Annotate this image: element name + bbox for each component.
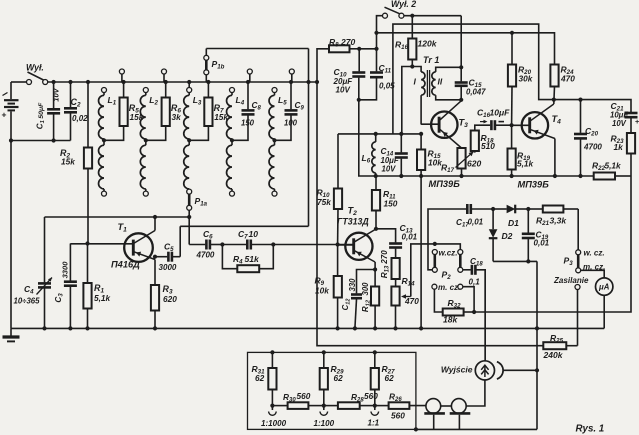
junction xyxy=(187,138,191,142)
resistor R31 xyxy=(268,352,276,405)
switch contact (band selector stub) xyxy=(119,69,124,82)
label R12 xyxy=(361,282,371,312)
transistor T3 xyxy=(421,101,461,148)
resistor R13 xyxy=(392,258,400,287)
svg-text:0,01: 0,01 xyxy=(534,239,550,248)
capacitor C20 xyxy=(574,100,587,176)
capacitor C5 xyxy=(155,252,180,262)
label R15 xyxy=(428,149,443,168)
svg-text:C1 50μF: C1 50μF xyxy=(36,102,46,129)
wire jacks xyxy=(441,380,485,406)
transistor T1 xyxy=(70,231,155,262)
wire T1 collector xyxy=(154,217,156,231)
label R11 xyxy=(383,189,398,209)
svg-text:4700: 4700 xyxy=(196,251,215,260)
transformer Tr1 core xyxy=(427,70,429,97)
capacitor C1 xyxy=(47,82,60,143)
svg-text:0,01: 0,01 xyxy=(402,233,418,242)
svg-text:+: + xyxy=(635,117,639,126)
wire T3 base line xyxy=(338,133,421,135)
output connector Wyjscie xyxy=(475,361,503,380)
label C14 xyxy=(381,146,399,174)
wire P3 to meter xyxy=(581,270,605,278)
junction xyxy=(270,404,377,408)
svg-text:100: 100 xyxy=(284,119,298,128)
label L2 xyxy=(149,95,158,107)
resistor R1 xyxy=(83,244,91,329)
label R25 xyxy=(543,333,564,360)
svg-text:10k: 10k xyxy=(315,286,329,296)
junction xyxy=(374,227,378,231)
resistor R3 xyxy=(151,285,159,328)
resistor R7 xyxy=(189,82,212,140)
label L4 xyxy=(236,95,245,107)
label C4 xyxy=(14,284,41,306)
wire T4 emitter xyxy=(554,139,556,177)
svg-text:1:100: 1:100 xyxy=(314,419,335,428)
junction xyxy=(102,138,106,142)
svg-text:51k: 51k xyxy=(245,254,260,264)
label Tr1 xyxy=(423,55,439,65)
svg-text:150: 150 xyxy=(384,199,398,209)
resistor R29 xyxy=(320,352,328,405)
label P3 wcz xyxy=(584,249,605,258)
wire C1/C2 bottom return xyxy=(11,140,71,142)
svg-text:510: 510 xyxy=(481,141,495,151)
label R14 xyxy=(402,276,420,306)
svg-text:П416Д: П416Д xyxy=(111,260,140,270)
wire top supply bus xyxy=(48,81,318,83)
junction xyxy=(357,98,361,102)
label R6 xyxy=(171,103,181,122)
junction xyxy=(153,255,157,259)
label T1 type xyxy=(111,260,140,270)
junction xyxy=(272,138,276,142)
svg-text:15k: 15k xyxy=(61,157,75,167)
capacitor C7 xyxy=(222,240,273,250)
label R9 xyxy=(315,276,330,296)
svg-text:560: 560 xyxy=(364,391,378,401)
svg-text:3300: 3300 xyxy=(61,261,70,279)
resistor R8 xyxy=(329,45,359,52)
label R23 xyxy=(611,134,625,153)
switch Wyl.2 xyxy=(383,7,404,18)
resistor R16 xyxy=(408,16,416,67)
label C16 xyxy=(477,108,510,120)
wire R16 node to C14 column xyxy=(402,67,413,134)
switch contact (band selector stub) xyxy=(162,69,167,82)
wire P1b line down to bus xyxy=(308,49,310,83)
svg-text:Zasilanie: Zasilanie xyxy=(553,276,589,285)
label R22 xyxy=(592,161,621,173)
diode D2 xyxy=(489,209,498,261)
label C13 xyxy=(400,223,418,242)
resistor R30 xyxy=(272,402,323,409)
junction xyxy=(526,207,530,211)
tap terminal 1:100 xyxy=(320,406,328,416)
junction xyxy=(336,242,340,246)
label C3 xyxy=(54,261,70,303)
junction xyxy=(336,326,424,330)
junction xyxy=(42,326,157,330)
svg-text:+: + xyxy=(2,110,7,120)
label R28 xyxy=(351,391,378,403)
capacitor C9 xyxy=(275,82,298,140)
label T2 type xyxy=(337,217,369,227)
wire L3 top to bus xyxy=(188,82,190,88)
junction xyxy=(410,64,414,68)
label R20 xyxy=(518,65,533,84)
svg-text:МП39Б: МП39Б xyxy=(429,179,461,189)
label D2 xyxy=(502,231,513,241)
label L1 xyxy=(108,95,117,107)
junction xyxy=(230,138,234,142)
wire R14 wiper to P2 xyxy=(411,244,461,297)
wire base line to T2 xyxy=(273,244,353,246)
wire right column xyxy=(474,176,631,312)
inductor L6 xyxy=(372,134,376,176)
label R26 xyxy=(389,392,405,421)
resistor R2 xyxy=(84,82,92,244)
label R32 xyxy=(443,298,461,325)
svg-text:w. cz.: w. cz. xyxy=(584,249,605,258)
svg-text:w.cz.: w.cz. xyxy=(439,249,458,258)
junction xyxy=(526,259,530,263)
inductor L1 xyxy=(99,88,107,197)
label 1:100 xyxy=(314,419,335,428)
label winding I xyxy=(414,77,417,87)
label R3 xyxy=(163,284,178,304)
label R31 xyxy=(252,364,266,383)
svg-text:62: 62 xyxy=(385,373,395,383)
resistor R11 xyxy=(372,176,380,229)
tap terminal 1:1 xyxy=(371,406,379,416)
label R5 xyxy=(129,103,144,122)
label Wyl.2 xyxy=(391,0,416,9)
switch P2 mcz contacts xyxy=(432,284,463,289)
junction xyxy=(510,123,514,127)
wire supply to output node xyxy=(317,82,543,346)
label C8 xyxy=(241,100,262,128)
label Wyjscie xyxy=(441,365,473,375)
resistor R21 xyxy=(528,206,578,213)
capacitor C3 xyxy=(64,244,77,329)
svg-text:1:1: 1:1 xyxy=(368,419,380,428)
label P1b xyxy=(212,59,225,71)
diode D1 xyxy=(493,205,528,214)
wire R8 feed from bus xyxy=(317,49,329,82)
wire T2 emitter xyxy=(374,262,376,270)
transistor T2 xyxy=(338,229,376,262)
svg-text:1:1000: 1:1000 xyxy=(261,419,287,428)
svg-text:4700: 4700 xyxy=(583,143,602,152)
label R8 xyxy=(329,37,355,49)
svg-text:Wyjście: Wyjście xyxy=(441,365,473,375)
resistor R9 xyxy=(334,245,342,329)
label C12 xyxy=(341,278,357,311)
switch P1a xyxy=(187,189,192,217)
resistor R10 xyxy=(334,134,342,245)
variable capacitor C4 xyxy=(37,217,53,328)
wire wcz detector feed xyxy=(428,209,466,270)
label R19 xyxy=(517,151,534,169)
svg-text:μA: μA xyxy=(598,283,610,292)
svg-text:1k: 1k xyxy=(614,142,624,152)
wire switch left to C10 column xyxy=(377,16,383,72)
label R17 xyxy=(441,159,481,175)
junction xyxy=(357,47,379,51)
switch P3 xyxy=(575,250,581,290)
resistor R27 xyxy=(371,352,379,405)
wire meter to ground rail xyxy=(603,295,605,328)
wire Wyjscie shield to ground xyxy=(504,369,538,371)
resistor R15 xyxy=(417,134,425,329)
svg-text:0,02: 0,02 xyxy=(72,114,88,123)
resistor R17 (adjustable) xyxy=(456,148,474,176)
inductor L2 xyxy=(140,88,148,197)
junction xyxy=(491,207,495,211)
label P3 mcz xyxy=(583,263,605,272)
wire battery negative to ground rail xyxy=(10,141,12,329)
tap terminal 1:1000 xyxy=(269,406,277,416)
wire P1b feed line xyxy=(206,48,308,50)
capacitor C6 xyxy=(189,240,222,250)
label T4 type xyxy=(518,180,550,190)
svg-text:5,1k: 5,1k xyxy=(94,293,111,303)
wire tank to C6 xyxy=(188,217,190,245)
wire C10 bottom to common rail xyxy=(359,100,376,176)
svg-text:3,3k: 3,3k xyxy=(550,216,568,226)
switch Wyl.1 xyxy=(27,72,48,85)
svg-text:10μF: 10μF xyxy=(490,108,511,118)
label L3 xyxy=(193,95,202,107)
junction xyxy=(220,242,224,246)
label 1:1000 xyxy=(261,419,287,428)
junction xyxy=(374,132,424,136)
wire Zasilanie to R25 xyxy=(577,289,579,345)
label C7 xyxy=(238,229,258,241)
svg-text:МП39Б: МП39Б xyxy=(518,180,550,190)
svg-text:m. cz.: m. cz. xyxy=(438,283,460,292)
junction xyxy=(52,80,320,84)
svg-text:330: 330 xyxy=(348,278,357,292)
junction xyxy=(510,31,514,35)
meter uA xyxy=(596,278,613,295)
attenuator box xyxy=(248,352,416,429)
label C5 xyxy=(159,242,177,273)
wire R8 to C10/C11 node xyxy=(359,48,376,50)
wire collector node to C13 xyxy=(376,229,396,243)
jack J1 xyxy=(424,399,445,430)
svg-text:10V: 10V xyxy=(336,86,351,95)
wire ground rail xyxy=(11,327,604,329)
svg-text:0,047: 0,047 xyxy=(466,88,486,97)
svg-text:240k: 240k xyxy=(543,350,564,360)
resistor R4 xyxy=(222,245,273,273)
resistor R6 xyxy=(146,82,170,140)
resistor R32 xyxy=(443,309,474,316)
wire feedback bus xyxy=(393,24,631,134)
svg-text:0,01: 0,01 xyxy=(468,218,484,227)
svg-text:Rys. 1: Rys. 1 xyxy=(576,424,605,435)
junction xyxy=(374,31,378,35)
svg-text:560: 560 xyxy=(391,411,405,421)
svg-text:10V: 10V xyxy=(612,119,627,128)
label T4 xyxy=(552,114,562,126)
svg-text:10V: 10V xyxy=(52,87,61,101)
svg-text:D1: D1 xyxy=(508,218,519,228)
wire battery to switch xyxy=(11,81,27,83)
label P1a xyxy=(195,196,208,208)
label R4 xyxy=(233,254,260,266)
label R16 xyxy=(395,39,438,52)
transformer Tr1 primary xyxy=(412,67,425,125)
svg-text:5,1k: 5,1k xyxy=(605,161,622,171)
wire mcz right contact xyxy=(463,287,475,312)
label mcz P2 xyxy=(438,283,460,292)
label C6 xyxy=(196,229,215,260)
wire attenuator ground line xyxy=(416,428,537,430)
svg-text:470: 470 xyxy=(560,74,575,84)
junction xyxy=(374,174,583,178)
svg-text:270: 270 xyxy=(340,37,355,47)
capacitor C11 xyxy=(359,73,383,100)
label R29 xyxy=(331,364,345,383)
junction xyxy=(9,138,13,142)
label T2 xyxy=(348,206,358,218)
switch P2 wcz contacts xyxy=(432,244,463,272)
label Zasilanie xyxy=(553,276,589,285)
junction xyxy=(552,98,583,102)
label R2 xyxy=(60,148,75,167)
resistor R24 xyxy=(550,65,558,105)
label C10 xyxy=(333,67,354,95)
svg-text:3k: 3k xyxy=(172,112,182,122)
junction xyxy=(472,310,476,314)
svg-text:15k: 15k xyxy=(130,112,144,122)
wire T1 emitter xyxy=(154,260,156,286)
svg-text:5,1k: 5,1k xyxy=(517,159,534,169)
junction xyxy=(433,242,437,246)
resistor R12 xyxy=(371,270,379,329)
label P2 xyxy=(442,270,452,282)
svg-text:10÷365: 10÷365 xyxy=(14,297,41,306)
switch P1b xyxy=(204,49,209,83)
capacitor C13 xyxy=(389,244,402,259)
label C18 xyxy=(469,256,484,287)
label C17 xyxy=(456,217,484,228)
svg-text:10: 10 xyxy=(249,229,259,239)
wire common rail xyxy=(376,175,594,177)
label C15 xyxy=(466,78,486,97)
svg-text:D2: D2 xyxy=(502,231,513,241)
resistor R22 xyxy=(594,173,631,180)
label winding II xyxy=(438,77,443,87)
junction xyxy=(373,267,377,271)
capacitor C12 xyxy=(351,270,375,329)
svg-text:620: 620 xyxy=(163,294,177,304)
ground symbol xyxy=(3,328,20,341)
label Rys1 xyxy=(576,424,605,435)
capacitor C19 xyxy=(522,209,535,261)
label R18 xyxy=(481,133,496,151)
transformer Tr1 secondary xyxy=(432,67,461,100)
jack J2 xyxy=(450,399,471,430)
wire bus A down to C15 xyxy=(460,16,462,68)
svg-text:3000: 3000 xyxy=(159,263,177,272)
label R10 xyxy=(317,188,332,208)
capacitor C16 xyxy=(480,120,512,130)
junction xyxy=(153,215,191,219)
capacitor C18 xyxy=(463,265,486,361)
wire Wyjscie top xyxy=(484,270,486,361)
label R24 xyxy=(560,65,575,84)
wire T1 base line xyxy=(69,243,71,245)
svg-text:620: 620 xyxy=(467,159,481,169)
switch contact (band selector stub) xyxy=(247,69,252,82)
label T3 xyxy=(459,118,469,130)
junction xyxy=(271,242,275,246)
label C21 xyxy=(610,101,628,128)
junction xyxy=(535,326,539,372)
wire mcz left to R32 xyxy=(434,289,442,312)
svg-text:270: 270 xyxy=(380,250,389,265)
svg-text:30k: 30k xyxy=(519,74,533,84)
wire switch output bus A xyxy=(404,15,462,17)
wire R21 to P3 xyxy=(577,209,579,250)
capacitor C14 xyxy=(395,134,408,176)
resistor R26 xyxy=(375,402,426,409)
label wcz P2 xyxy=(439,249,458,258)
svg-text:62: 62 xyxy=(255,373,265,383)
wire ground column xyxy=(536,261,538,429)
wire bus to C5 link xyxy=(180,82,308,257)
transistor T4 xyxy=(512,104,555,139)
label 1:1 xyxy=(368,419,380,428)
inductor L5 xyxy=(269,88,277,197)
junction xyxy=(85,241,89,245)
label R7 xyxy=(214,103,229,122)
label C19 xyxy=(534,230,550,248)
label T1 xyxy=(118,222,128,234)
junction xyxy=(270,350,418,431)
label C20 xyxy=(583,126,602,152)
capacitor C17 xyxy=(467,204,493,214)
svg-text:Wył. 2: Wył. 2 xyxy=(391,0,416,9)
resistor R19 xyxy=(508,125,516,176)
svg-text:II: II xyxy=(438,77,443,87)
resistor R20 xyxy=(508,33,516,125)
label D1 xyxy=(508,218,519,228)
switch contact (band selector stub) xyxy=(289,69,294,82)
label R27 xyxy=(382,364,396,383)
label T3 type xyxy=(429,179,461,189)
svg-text:470: 470 xyxy=(404,296,419,306)
label C11 xyxy=(379,63,396,91)
wire bus C xyxy=(377,33,555,65)
svg-text:ГТ313Д: ГТ313Д xyxy=(337,217,369,227)
capacitor C10 xyxy=(352,49,365,100)
junction xyxy=(459,98,463,102)
inductor L4 xyxy=(227,88,235,197)
svg-text:0,1: 0,1 xyxy=(469,278,481,287)
svg-text:75k: 75k xyxy=(317,197,331,207)
label C2 xyxy=(71,97,89,123)
junction xyxy=(144,138,148,142)
svg-text:62: 62 xyxy=(334,373,344,383)
wire tank line xyxy=(45,216,190,218)
label R21 xyxy=(536,216,567,228)
